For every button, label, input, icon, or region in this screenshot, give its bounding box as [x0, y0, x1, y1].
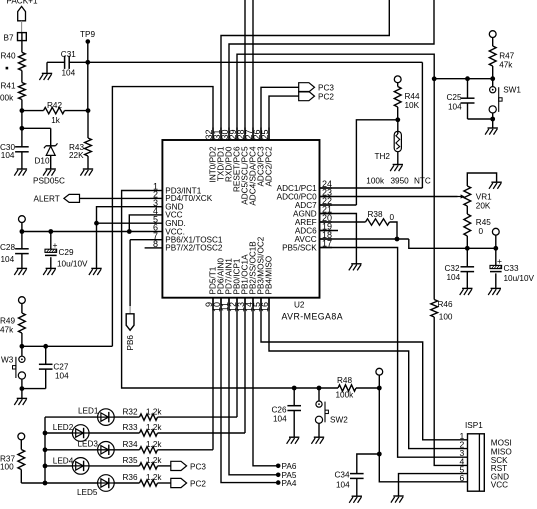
node R41-R42: [20, 108, 25, 113]
wire LED bus: [44, 417, 46, 483]
node TP9-C31: [85, 60, 90, 65]
ground: [393, 164, 403, 166]
svg-text:20K: 20K: [476, 202, 491, 211]
wire VCC rail: [22, 231, 150, 233]
wire pin16 MISO: [269, 298, 468, 449]
wire GND pins 3+5: [97, 207, 151, 269]
wire INT0 net: [112, 87, 213, 347]
LED LED5 + resistor R36: [45, 482, 98, 484]
node: [20, 386, 25, 391]
svg-text:47k: 47k: [0, 326, 14, 335]
svg-text:1.2k: 1.2k: [146, 440, 162, 449]
node: [94, 221, 99, 226]
svg-text:0: 0: [479, 227, 484, 236]
switch W3: [21, 346, 23, 356]
svg-text:VR1: VR1: [476, 193, 492, 202]
node C30-D10: [20, 126, 25, 131]
node: [432, 76, 437, 81]
svg-text:PC2: PC2: [190, 479, 206, 488]
svg-text:R48: R48: [337, 376, 352, 385]
svg-text:R38: R38: [368, 210, 383, 219]
wire PD3 to SW2 net: [122, 191, 338, 389]
wire W3 net: [22, 345, 113, 347]
svg-text:W3: W3: [1, 355, 14, 364]
node: [465, 246, 470, 251]
node: [20, 344, 25, 349]
thermistor TH2: [397, 120, 399, 134]
resistor R44: [394, 87, 401, 108]
ground: [491, 287, 501, 289]
svg-text:MOSI: MOSI: [491, 439, 512, 448]
resistor R48: [338, 385, 356, 391]
wire pin22: [320, 204, 357, 206]
wire TH2 to ADC7: [356, 120, 397, 205]
svg-text:3950: 3950: [391, 177, 410, 186]
op-amp U2 AVR-MEGA8A body: [162, 140, 319, 298]
switch SW1: [492, 79, 494, 87]
wire ALERT-PD4: [80, 197, 151, 199]
resistor R47: [489, 46, 496, 66]
capacitor C28: [21, 232, 23, 249]
ground: [91, 267, 101, 269]
power VCC: [19, 216, 26, 223]
svg-text:R49: R49: [0, 316, 15, 325]
node R38-AVCC: [395, 237, 400, 242]
svg-text:0: 0: [390, 213, 395, 222]
svg-text:1k: 1k: [51, 116, 61, 125]
chip bottom pins 9-16 with labels: [212, 298, 214, 311]
wire pin10-PA4: [221, 298, 278, 483]
svg-text:8: 8: [153, 239, 158, 249]
node: [292, 386, 297, 391]
svg-text:R36: R36: [123, 473, 138, 482]
node: [43, 481, 48, 486]
ground: [393, 495, 403, 497]
power VCC: [492, 228, 499, 235]
resistor R38: [320, 221, 366, 223]
power VCC: [394, 76, 401, 83]
ground: [46, 267, 56, 269]
svg-text:ADC2/PC2: ADC2/PC2: [264, 146, 273, 186]
svg-text:LED2: LED2: [53, 423, 74, 432]
wire RESET down: [433, 79, 435, 300]
node: [127, 229, 132, 234]
node: [43, 344, 48, 349]
svg-text:104: 104: [336, 481, 350, 490]
node: [490, 117, 495, 122]
svg-text:R33: R33: [123, 423, 138, 432]
svg-text:C34: C34: [335, 470, 350, 479]
wire: [21, 389, 23, 399]
svg-text:PSD05C: PSD05C: [33, 177, 65, 186]
capacitor C26: [293, 388, 295, 406]
resistor R49: [19, 313, 26, 333]
svg-text:104: 104: [447, 273, 461, 282]
svg-text:104: 104: [1, 255, 15, 264]
svg-text:100k: 100k: [336, 391, 355, 400]
ground: [462, 287, 472, 289]
wire reset junction: [434, 78, 493, 80]
svg-text:LED4: LED4: [53, 457, 74, 466]
wire pin25-PC2: [269, 96, 299, 140]
node: [377, 386, 382, 391]
svg-text:TH2: TH2: [375, 152, 391, 161]
svg-text:C31: C31: [61, 50, 76, 59]
flag PC2: [299, 92, 315, 101]
svg-text:104: 104: [55, 372, 69, 381]
wire pin14-PA6: [253, 298, 278, 466]
svg-text:PB7/X2/TOSC2: PB7/X2/TOSC2: [165, 244, 223, 253]
wire pin24: [320, 187, 423, 189]
node: [43, 464, 48, 469]
svg-text:1.2k: 1.2k: [146, 473, 162, 482]
svg-text:104: 104: [62, 69, 76, 78]
wire pin23 to VR1 wiper: [320, 196, 458, 198]
ground: [46, 168, 56, 170]
wire pin5: [97, 222, 151, 224]
node R42-R43: [86, 108, 91, 113]
wire: [492, 119, 494, 128]
svg-text:R34: R34: [123, 440, 138, 449]
chip left pins 1-8 with labels: [150, 190, 162, 192]
svg-text:PB5/SCK: PB5/SCK: [282, 243, 317, 252]
svg-text:R42: R42: [47, 101, 62, 110]
capacitor C33: [495, 248, 497, 265]
capacitor C30: [21, 128, 23, 147]
svg-text:PA6: PA6: [282, 462, 297, 471]
chip top pins 32-25 with labels: [212, 128, 214, 141]
svg-text:VCC: VCC: [491, 481, 508, 490]
svg-text:104: 104: [1, 151, 15, 160]
node: [48, 229, 53, 234]
svg-text:00k: 00k: [0, 94, 14, 103]
wire pin15 MOSI: [261, 298, 468, 440]
svg-text:U2: U2: [294, 301, 305, 310]
resistor R46: [431, 300, 438, 318]
svg-text:R44: R44: [405, 92, 420, 101]
wire SCL: [244, 0, 246, 140]
wire VCC pins 4+6: [129, 215, 150, 232]
svg-text:100: 100: [0, 462, 14, 471]
svg-text:104: 104: [448, 103, 462, 112]
svg-text:LED3: LED3: [78, 440, 99, 449]
node R44-TH2: [395, 117, 400, 122]
node: [493, 246, 498, 251]
svg-text:22K: 22K: [69, 151, 84, 160]
wire PB6 pentagon: [130, 239, 150, 241]
svg-text:AVR-MEGA8A: AVR-MEGA8A: [282, 312, 344, 322]
wire: [21, 71, 23, 83]
resistor R37: [18, 450, 25, 470]
capacitor C27: [45, 346, 47, 364]
node: [43, 431, 48, 436]
resistor R45: [466, 206, 468, 214]
ground: [42, 72, 52, 74]
svg-text:R32: R32: [123, 407, 138, 416]
wire RESET net: [237, 54, 434, 140]
svg-text:100k: 100k: [366, 177, 385, 186]
ground: [17, 168, 27, 170]
wire VCC to ISP: [379, 388, 467, 482]
ground: [351, 263, 361, 265]
svg-text:47k: 47k: [499, 61, 513, 70]
capacitor C31: [64, 56, 66, 69]
chip right pins 24-17 with labels: [320, 187, 333, 189]
svg-text:D10: D10: [35, 157, 50, 166]
wire: [87, 62, 89, 110]
svg-text:+: +: [497, 256, 502, 266]
power VCC: [18, 433, 25, 440]
svg-text:B7: B7: [4, 33, 14, 42]
ground: [352, 495, 362, 497]
LED LED4 + resistor R35: [45, 465, 73, 467]
node: [465, 76, 470, 81]
svg-text:R46: R46: [438, 300, 453, 309]
ground: [83, 168, 93, 170]
svg-text:PC2: PC2: [318, 92, 334, 101]
wire SDA: [252, 0, 254, 140]
wire: [21, 100, 23, 111]
wire pin8 stub: [145, 247, 150, 249]
svg-text:PB4/MISO: PB4/MISO: [264, 256, 273, 295]
svg-text:104: 104: [273, 414, 287, 423]
capacitor C25: [467, 79, 469, 99]
svg-text:10u/10V: 10u/10V: [57, 259, 88, 268]
svg-text:C32: C32: [445, 264, 460, 273]
connector PACK+1: [18, 6, 26, 20]
resistor R43: [87, 111, 89, 138]
ground: [289, 436, 299, 438]
potentiometer VR1: [464, 186, 471, 206]
svg-text:ISP1: ISP1: [465, 421, 483, 430]
svg-text:SW1: SW1: [503, 86, 521, 95]
ground: [488, 127, 498, 129]
svg-text:PACK+1: PACK+1: [6, 0, 37, 5]
node: [377, 452, 382, 457]
svg-text:C25: C25: [447, 93, 462, 102]
svg-text:10u/10V: 10u/10V: [504, 274, 535, 283]
svg-text:C28: C28: [0, 243, 15, 252]
svg-text:10K: 10K: [405, 101, 420, 110]
svg-text:PB6: PB6: [126, 335, 135, 351]
selection mark: [6, 67, 9, 70]
wire pin19 stub: [320, 230, 339, 232]
svg-text:PC3: PC3: [318, 83, 334, 92]
wire ISP GND: [399, 474, 468, 496]
wire RXD net: [229, 0, 434, 140]
svg-text:R40: R40: [1, 52, 16, 61]
svg-text:1.2k: 1.2k: [146, 407, 162, 416]
node: [490, 76, 495, 81]
wire pin17 SCK: [320, 248, 468, 458]
capacitor C34: [357, 454, 380, 474]
svg-text:C27: C27: [53, 362, 68, 371]
zener diode D10: [50, 128, 52, 146]
wire pin21 AGND: [320, 214, 357, 264]
svg-text:R41: R41: [1, 82, 16, 91]
wire: [22, 127, 51, 129]
svg-text:1.2k: 1.2k: [146, 456, 162, 465]
ground: [17, 267, 27, 269]
node: [317, 386, 322, 391]
node: [20, 229, 25, 234]
wire: [21, 111, 23, 129]
power VCC: [489, 31, 496, 38]
svg-text:LED1: LED1: [78, 407, 99, 416]
node: [43, 447, 48, 452]
svg-text:C33: C33: [504, 264, 519, 273]
connector ISP1: [468, 434, 485, 491]
LED LED3 + resistor R34: [45, 449, 98, 451]
svg-text:LED5: LED5: [77, 488, 98, 497]
resistor R42: [22, 110, 44, 112]
wire RST to ISP: [434, 317, 467, 465]
wire net TP9/ADC1: [88, 61, 423, 63]
svg-text:R45: R45: [476, 218, 491, 227]
wire pin11-PA5: [229, 298, 278, 475]
resistor R40: [19, 52, 26, 70]
wire TXD net: [221, 0, 389, 140]
ground: [491, 181, 501, 183]
flag PC3 bottom: [158, 465, 171, 467]
switch SW2: [318, 388, 320, 401]
flag ALERT: [64, 194, 80, 202]
svg-text:PA4: PA4: [282, 479, 297, 488]
svg-text:100: 100: [439, 313, 453, 322]
svg-text:PC3: PC3: [190, 462, 206, 471]
LED LED2 + resistor R33: [45, 432, 73, 434]
flag PC2 bottom: [158, 482, 171, 484]
LED LED1 + resistor R32: [45, 416, 98, 418]
wire: [21, 41, 23, 53]
svg-text:+: +: [53, 240, 58, 250]
ground: [314, 436, 324, 438]
wire pin26-PC3: [261, 87, 299, 140]
resistor R41: [19, 83, 26, 100]
connector PB6: [126, 314, 134, 330]
power VCC: [19, 297, 26, 304]
svg-text:NTC: NTC: [414, 177, 431, 186]
ground: [17, 397, 27, 399]
capacitor C29: [50, 232, 52, 250]
svg-text:TP9: TP9: [80, 30, 95, 39]
flag PC3: [299, 83, 315, 92]
svg-text:1.2k: 1.2k: [146, 423, 162, 432]
fuse B7: [18, 33, 27, 41]
svg-text:R35: R35: [123, 456, 138, 465]
svg-text:SW2: SW2: [330, 415, 348, 424]
svg-text:R47: R47: [499, 51, 514, 60]
wire pin18 AVCC: [320, 238, 409, 240]
power VCC: [376, 368, 383, 375]
capacitor C32: [466, 248, 468, 266]
svg-text:ALERT: ALERT: [34, 194, 60, 203]
svg-text:C29: C29: [59, 248, 74, 257]
svg-text:C26: C26: [272, 405, 287, 414]
